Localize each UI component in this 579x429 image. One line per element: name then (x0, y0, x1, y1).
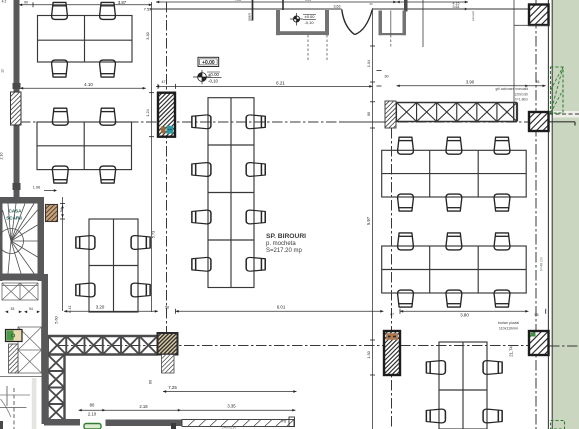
svg-text:gril acționare manuală: gril acționare manuală (496, 87, 529, 91)
column C6 bottom-right (529, 331, 549, 355)
chair C2R (246, 163, 265, 177)
bottom-left corner lines (6, 386, 8, 406)
door jamb bottom (171, 423, 176, 429)
top bar (252, 0, 254, 21)
chair C1L (192, 115, 211, 129)
stair room top wall (0, 197, 44, 204)
desk bank D table (382, 150, 527, 197)
chair B3 (52, 166, 68, 183)
svg-text:±0.00: ±0.00 (305, 14, 316, 19)
recess2 wall left (379, 11, 383, 36)
column C6 green mark (531, 333, 536, 337)
chair B1 (52, 108, 68, 125)
chair G1L (426, 361, 445, 375)
vestibule dashed line below 2 (307, 35, 309, 62)
column C7 in left wall (11, 92, 22, 125)
svg-text:1.30: 1.30 (366, 350, 371, 358)
chair E3B (494, 290, 510, 307)
dimension 80 / 2.10 (79, 409, 106, 411)
svg-text:30: 30 (384, 75, 388, 79)
dimension row top-left 3.87 (19, 4, 152, 6)
svg-text:SP. BIROURI: SP. BIROURI (266, 233, 306, 240)
dimension 58 column (175, 309, 177, 314)
chair A3 (52, 60, 68, 77)
chair E1T (398, 233, 414, 250)
window sill band bottom (182, 420, 294, 427)
dimension row top-middle (156, 1, 397, 3)
svg-text:6.01: 6.01 (277, 305, 286, 310)
wall right double line inner (551, 0, 553, 429)
svg-text:7.03: 7.03 (234, 0, 241, 2)
svg-text:h=40 cm: h=40 cm (540, 257, 544, 271)
svg-text:-0,10: -0,10 (208, 78, 219, 83)
chair D3B (494, 194, 510, 211)
grid centerline horizontal B (y=122) (20, 121, 548, 123)
svg-text:60: 60 (149, 380, 153, 384)
chair E2B (446, 290, 462, 307)
meeting table F (89, 219, 138, 312)
svg-text:SCĂRII: SCĂRII (6, 214, 22, 220)
chair G2R (483, 409, 502, 423)
svg-text:54: 54 (29, 307, 33, 311)
column C4 top-right (529, 5, 549, 26)
svg-text:58: 58 (60, 208, 64, 212)
svg-text:58: 58 (165, 306, 169, 310)
svg-text:±0.00: ±0.00 (208, 72, 220, 77)
light band bottom-left (32, 378, 37, 429)
left dimension chain line (62, 197, 64, 311)
desk cluster G table (439, 342, 487, 429)
svg-text:3.35: 3.35 (227, 403, 236, 408)
desk bank E table (382, 246, 527, 293)
svg-text:3,63: 3,63 (334, 5, 341, 9)
chair C3R (246, 210, 265, 224)
chair A4 (100, 60, 116, 77)
chair B4 (100, 166, 116, 183)
dimension 3.90 top right (397, 85, 529, 87)
dimension 90 rotated (370, 101, 375, 103)
svg-text:53: 53 (11, 307, 15, 311)
svg-text:2.18: 2.18 (139, 404, 148, 409)
svg-text:80: 80 (90, 402, 95, 407)
column C9 lower extension (162, 355, 175, 374)
long desk bank C table (208, 98, 254, 288)
vestibule dashed line below (326, 35, 328, 62)
roof truss end member (516, 103, 518, 122)
dimension 7.25 (163, 391, 297, 393)
wall bottom 2 (106, 420, 183, 427)
wall bottom-left vertical (42, 274, 49, 424)
svg-text:1400x210: 1400x210 (222, 426, 236, 429)
green dashed box bottom-right (551, 421, 565, 429)
vestibule wall right (325, 10, 329, 35)
desk cluster A table (38, 16, 133, 63)
exterior dashed line at grid B (549, 113, 579, 115)
svg-text:h=1.80m: h=1.80m (515, 98, 528, 102)
stair room right wall (38, 197, 45, 281)
svg-text:5.97: 5.97 (366, 216, 371, 225)
svg-text:3.87: 3.87 (118, 0, 127, 5)
reference line x=151.5 (151, 2, 153, 312)
chair D2T (446, 137, 462, 154)
svg-text:4.2: 4.2 (2, 0, 7, 4)
roof truss top-right (397, 102, 518, 104)
svg-text:1.06: 1.06 (33, 186, 40, 190)
stair room bottom wall (0, 274, 44, 281)
bottom-left door arc (1, 399, 11, 417)
svg-text:3.80: 3.80 (460, 312, 469, 317)
svg-text:55: 55 (535, 313, 539, 317)
wall junction blob 2 (13, 183, 21, 190)
vestibule wall bottom (276, 31, 329, 35)
grid line C continuation into exterior (549, 345, 579, 347)
reference line x=514 (513, 0, 515, 122)
chair D1B (398, 194, 414, 211)
level box +0.00 (198, 57, 219, 66)
reference line x=372.5 (372, 8, 374, 429)
svg-text:120x0.80: 120x0.80 (514, 93, 528, 97)
wall left lower (14, 125, 20, 203)
green door bottom wall (84, 424, 101, 429)
exterior green strip right (553, 0, 579, 429)
svg-text:Pf2: Pf2 (282, 420, 287, 424)
grid B solid segment near column C2 (340, 121, 385, 123)
under-stair brace panel (2, 283, 38, 300)
recess2 wall bottom (379, 33, 407, 35)
exterior white band at grid B (553, 111, 579, 118)
column C8 bottom-left (9, 344, 19, 373)
svg-text:1.24: 1.24 (145, 108, 150, 116)
facade top line right (373, 8, 530, 10)
chair G2L (426, 409, 445, 423)
vestibule wall left (276, 10, 280, 35)
desk cluster B table (37, 122, 132, 170)
svg-text:6.21: 6.21 (276, 80, 285, 85)
grid centerline horizontal C (y=345.5) (58, 345, 548, 347)
recess2 wall right (403, 11, 407, 36)
svg-text:geam: geam (248, 13, 252, 21)
chair G1R (483, 361, 502, 375)
svg-text:90: 90 (369, 2, 373, 6)
entrance double door arcs (342, 10, 355, 35)
dimension 3.35 (181, 409, 296, 411)
column C2 (light, truss end) (385, 101, 396, 128)
dimension 55 (545, 309, 547, 314)
svg-text:21.74: 21.74 (509, 346, 514, 357)
svg-text:S=217.20 mp: S=217.20 mp (266, 248, 303, 254)
dimension 1.04 rotated (370, 45, 375, 47)
reference line x=423 (422, 0, 424, 47)
chair E3T (494, 233, 510, 250)
svg-text:CASA: CASA (8, 208, 22, 213)
chair E1B (398, 290, 414, 307)
level symbol vestibule (293, 16, 299, 22)
svg-text:90: 90 (24, 1, 28, 5)
dimension row top-right 3.61 (430, 8, 468, 10)
svg-text:-0,10: -0,10 (304, 20, 314, 25)
chair C4R (246, 257, 265, 271)
dimension 2.18 (106, 409, 182, 411)
line under top-right column (514, 24, 548, 26)
truss beam bottom-left horizontal (48, 335, 158, 337)
svg-text:2.10: 2.10 (88, 412, 97, 417)
dimension chain bottom 3.20 (64, 310, 158, 312)
facade top line left (150, 8, 342, 10)
dimension 47 top of column (157, 84, 159, 89)
stair room left wall sliver (0, 197, 3, 281)
svg-text:4.25: 4.25 (305, 0, 311, 2)
dimension 47 (399, 309, 401, 314)
svg-text:3.30: 3.30 (145, 31, 150, 39)
wall junction blob (13, 83, 21, 89)
chair D3T (494, 137, 510, 154)
svg-text:7.25: 7.25 (168, 385, 177, 390)
chair D2B (446, 194, 462, 211)
recess2 inner line (390, 11, 392, 36)
wall left upper (14, 0, 20, 92)
svg-text:p. mocheta: p. mocheta (266, 241, 296, 247)
column C3 brown band (386, 333, 398, 340)
wall right double line outer (547, 0, 549, 429)
dimension 4.10 (20, 87, 146, 89)
column C9 truss end (tan) (158, 333, 178, 355)
column C1 grid2 (158, 93, 175, 137)
svg-text:47: 47 (390, 312, 394, 316)
exterior solid line below grid B (549, 121, 575, 123)
grid centerline vertical 3 (x=391.5) (391, 128, 393, 429)
green dashed shaft top-right (551, 67, 564, 113)
svg-text:+0.00: +0.00 (202, 60, 215, 66)
grid centerline vertical bottom-left (x=14) (13, 388, 15, 429)
top pier (404, 0, 408, 12)
chair D1T (398, 137, 414, 154)
column C3 grid3 bottom (384, 331, 400, 375)
svg-text:3.20: 3.20 (96, 305, 105, 310)
chair F2R (131, 283, 150, 297)
spiral stair radial treads (0, 204, 38, 274)
dimension 6.01 (176, 310, 384, 312)
dimension 1.30 rotated (370, 339, 375, 341)
grid centerline vertical 2 (x=166.5) (166, 2, 168, 333)
dimension row top-right 4.15 (397, 1, 469, 3)
dimension 6.21 (156, 85, 373, 87)
chair C1R (246, 115, 265, 129)
chair C3L (192, 210, 211, 224)
chair F2L (76, 283, 95, 297)
svg-text:3.90: 3.90 (466, 80, 475, 85)
svg-text:5.60: 5.60 (55, 316, 59, 323)
grid centerline vertical 4 (x=536) (535, 0, 537, 429)
svg-text:110x110mm: 110x110mm (499, 327, 518, 331)
chair E2T (446, 233, 462, 250)
equipment green box (6, 330, 23, 342)
chair C2L (192, 163, 211, 177)
column C1 teal insert (166, 126, 173, 134)
svg-text:45: 45 (536, 80, 540, 84)
chair A2 (100, 2, 116, 19)
dimension 45 top right (529, 85, 546, 87)
svg-text:4.10: 4.10 (84, 82, 93, 87)
shaft cross panel (18, 327, 42, 373)
truss column bottom-left vertical (46, 355, 48, 421)
svg-text:5.73: 5.73 (151, 231, 156, 239)
svg-text:10: 10 (1, 69, 5, 73)
chair F1L (76, 236, 95, 250)
chair A1 (52, 2, 68, 19)
level symbol main (198, 73, 207, 82)
svg-text:3.61: 3.61 (453, 5, 460, 9)
column C5 mid-right (529, 112, 549, 131)
stair door brown element (46, 205, 58, 222)
column C1 brown insert (161, 127, 166, 134)
chair F1R (131, 236, 150, 250)
wall bottom 1 (44, 419, 80, 426)
svg-text:parapet: parapet (471, 11, 475, 21)
sill end block Pf2 (289, 417, 295, 427)
chair B2 (100, 108, 116, 125)
dimension 3.80 (400, 310, 529, 312)
chair C4L (192, 257, 211, 271)
svg-text:1.04: 1.04 (366, 59, 371, 67)
svg-text:burlan pluvial: burlan pluvial (498, 321, 519, 325)
top bar 2 (282, 0, 284, 10)
svg-text:2.10: 2.10 (0, 153, 4, 160)
svg-text:47: 47 (162, 80, 166, 84)
